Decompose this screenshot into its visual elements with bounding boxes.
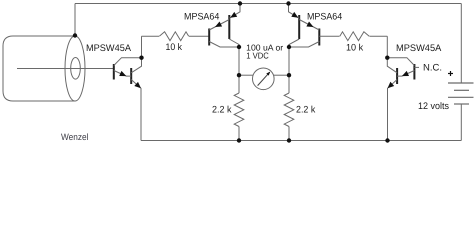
svg-text:2.2 k: 2.2 k — [212, 104, 232, 115]
svg-text:MPSW45A: MPSW45A — [396, 43, 442, 54]
svg-text:MPSA64: MPSA64 — [184, 12, 219, 23]
svg-text:MPSA64: MPSA64 — [307, 12, 342, 23]
svg-text:10 k: 10 k — [166, 42, 183, 53]
svg-text:10 k: 10 k — [346, 43, 363, 54]
svg-text:N.C.: N.C. — [423, 63, 442, 74]
svg-text:Wenzel: Wenzel — [61, 132, 88, 142]
svg-text:MPSW45A: MPSW45A — [86, 43, 132, 54]
svg-text:2.2 k: 2.2 k — [296, 104, 316, 115]
svg-text:12 volts: 12 volts — [418, 101, 449, 112]
svg-text:1 VDC: 1 VDC — [246, 51, 269, 61]
